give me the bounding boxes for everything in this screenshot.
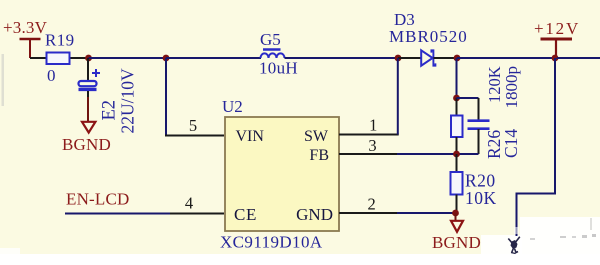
svg-text:GND: GND — [296, 205, 333, 224]
power +12V — [534, 19, 580, 58]
junction H (GND net) — [452, 210, 459, 217]
power +3.3V — [3, 18, 48, 58]
junction B (rail / VIN branch) — [163, 55, 170, 62]
ground BGND (left) — [62, 91, 111, 154]
wire EN-LCD — [65, 213, 170, 215]
junction D (rail / R26-C14 branch) — [454, 55, 461, 62]
IC U2 XC9119D10A — [220, 97, 339, 252]
capacitor C14 1800p — [457, 66, 522, 158]
resistor R19 — [30, 31, 89, 86]
svg-text:MBR0520: MBR0520 — [389, 27, 468, 46]
diode D3 MBR0520 — [389, 10, 468, 66]
svg-text:U2: U2 — [222, 97, 243, 116]
resistor R26 120K — [451, 66, 504, 159]
svg-text:10K: 10K — [465, 188, 497, 208]
svg-text:1: 1 — [369, 116, 377, 135]
wire rail segment 3 — [285, 57, 399, 59]
svg-text:BGND: BGND — [432, 233, 481, 252]
resistor R20 10K — [451, 154, 497, 213]
svg-text:CE: CE — [234, 205, 257, 224]
svg-text:2: 2 — [367, 195, 375, 214]
ground BGND (right) — [432, 213, 481, 252]
svg-text:BGND: BGND — [62, 135, 111, 154]
svg-text:3: 3 — [368, 136, 376, 155]
junction A (R19 / E2) — [85, 55, 92, 62]
wire rail segment 5 — [555, 57, 600, 59]
mouse cursor glyph — [508, 237, 520, 254]
wire VIN branch (vertical) — [165, 58, 167, 136]
svg-text:0: 0 — [47, 66, 56, 85]
pin 5 (VIN) — [165, 116, 224, 136]
wire rail segment 4 — [457, 57, 555, 59]
svg-text:R19: R19 — [45, 31, 75, 50]
junction F (R26 / C14 top) — [453, 95, 460, 102]
junction C (rail / SW branch) — [395, 55, 402, 62]
svg-text:+3.3V: +3.3V — [3, 18, 48, 37]
svg-text:22U/10V: 22U/10V — [118, 68, 138, 134]
wire divider branch (vertical from rail) — [456, 58, 458, 98]
pin 4 (CE) — [170, 194, 224, 214]
junction E (rail / +12V) — [552, 55, 559, 62]
wire rail segment 2 — [166, 57, 261, 59]
svg-text:4: 4 — [185, 194, 193, 213]
svg-text:1800p: 1800p — [502, 66, 521, 109]
svg-text:SW: SW — [304, 128, 329, 145]
svg-text:EN-LCD: EN-LCD — [66, 190, 130, 209]
junction G (FB / divider mid) — [453, 151, 460, 158]
svg-text:XC9119D10A: XC9119D10A — [220, 233, 323, 252]
pin 1 (SW) — [339, 116, 399, 135]
wire rail segment 1 — [89, 57, 167, 59]
svg-text:E2: E2 — [100, 100, 120, 121]
pin 3 (FB) — [339, 136, 397, 155]
inductor G5 — [259, 30, 298, 78]
wire FB to divider — [397, 153, 457, 155]
pin 2 (GND) — [339, 195, 397, 214]
svg-text:G5: G5 — [260, 30, 281, 49]
svg-text:C14: C14 — [501, 129, 521, 158]
svg-text:5: 5 — [189, 116, 197, 135]
svg-text:10uH: 10uH — [259, 59, 298, 78]
svg-text:VIN: VIN — [236, 128, 265, 145]
capacitor E2 22U/10V — [79, 58, 138, 134]
svg-text:+12V: +12V — [534, 19, 580, 38]
wire GND pin to ground junction — [397, 212, 456, 214]
wire SW branch (vertical) — [397, 58, 399, 135]
svg-text:FB: FB — [309, 147, 329, 164]
wire +12V hook (down, left, down) — [514, 58, 555, 236]
